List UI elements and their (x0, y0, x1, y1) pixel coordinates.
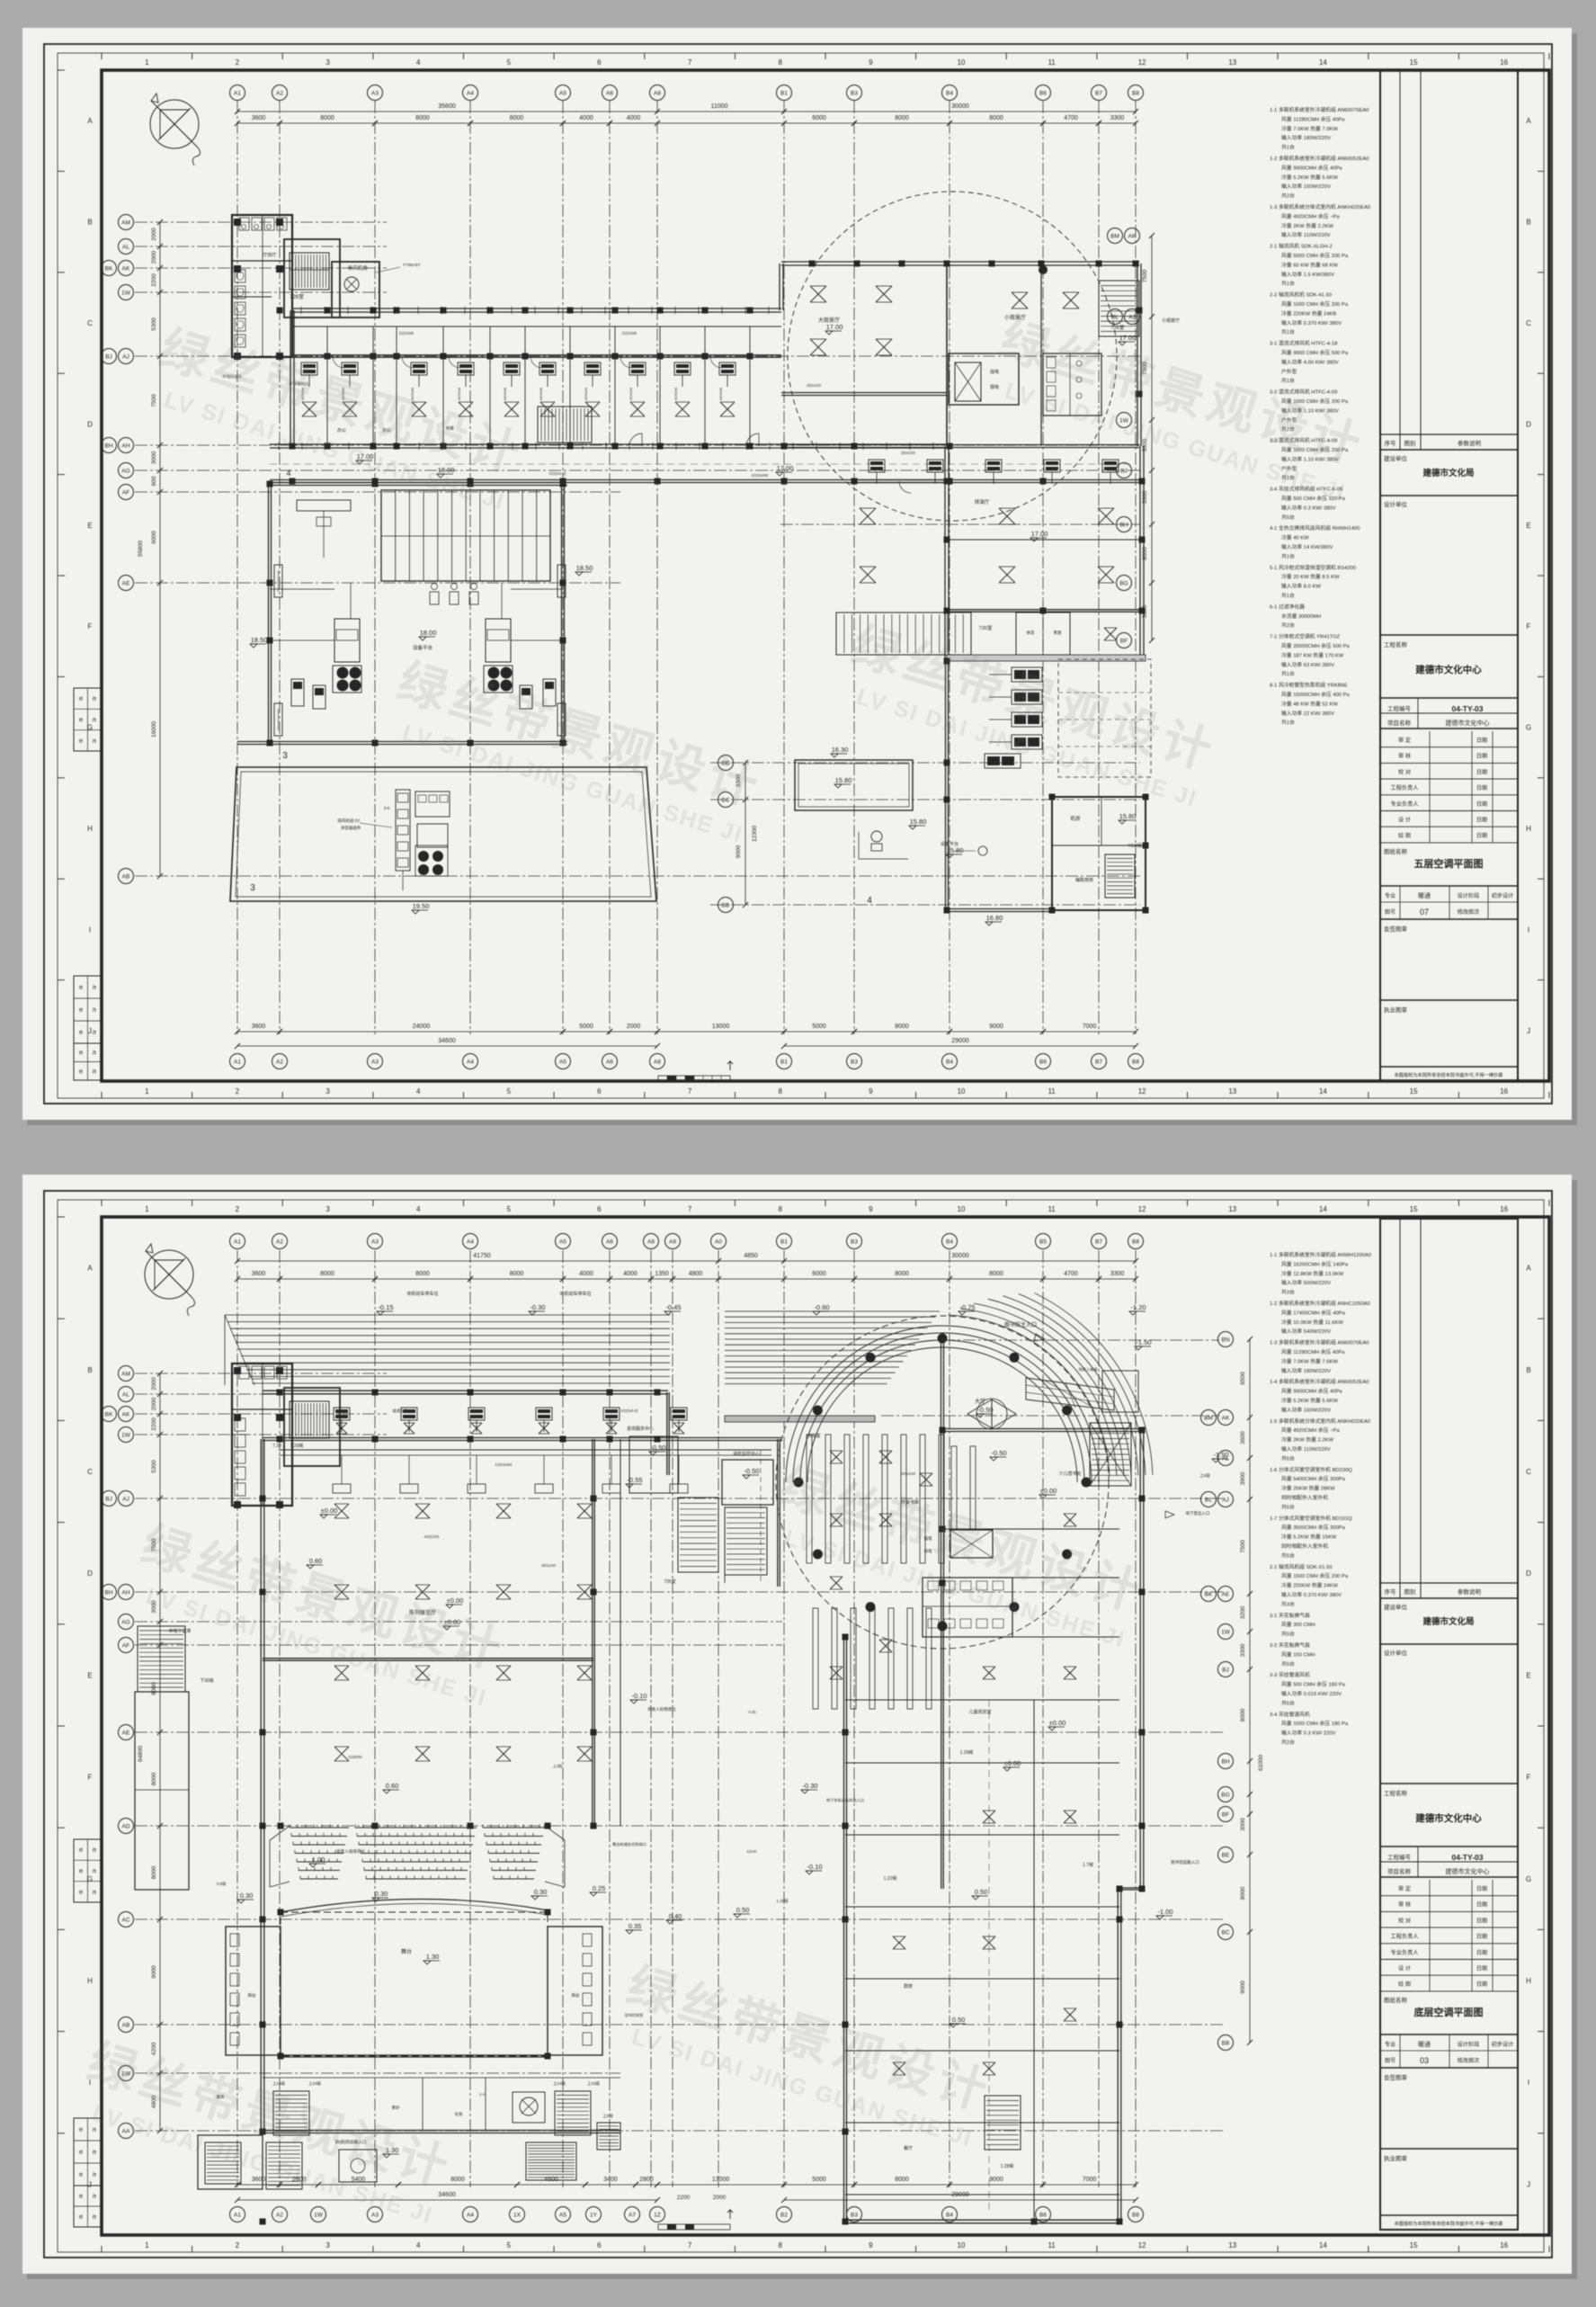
svg-text:日期: 日期 (1476, 1933, 1487, 1940)
svg-text:1.28候: 1.28候 (776, 1898, 789, 1904)
svg-text:风量 15000CMH 余压 400 Pa: 风量 15000CMH 余压 400 Pa (1281, 691, 1350, 698)
svg-text:输入功率 14 KW/380V: 输入功率 14 KW/380V (1281, 543, 1333, 550)
svg-text:726堂: 726堂 (1111, 324, 1125, 331)
svg-text:B: B (87, 1366, 92, 1374)
svg-text:日期: 日期 (1476, 753, 1487, 760)
svg-text:4850: 4850 (744, 1253, 758, 1259)
svg-text:E2D2M6: E2D2M6 (622, 331, 638, 335)
svg-text:输入功率 0.3 KW/ 380V: 输入功率 0.3 KW/ 380V (1281, 504, 1336, 511)
annex bottom wall (947, 908, 1052, 910)
svg-text:工程负责人: 工程负责人 (1391, 784, 1419, 791)
svg-text:1.7候: 1.7候 (1083, 1862, 1093, 1868)
svg-text:2: 2 (236, 2241, 240, 2249)
svg-text:13: 13 (1228, 2241, 1236, 2249)
svg-text:7: 7 (688, 1205, 692, 1213)
svg-text:3-2 混流式排风机 HTFC-4-09: 3-2 混流式排风机 HTFC-4-09 (1270, 389, 1337, 396)
svg-text:18.00: 18.00 (420, 629, 437, 637)
svg-text:修: 修 (79, 717, 84, 723)
svg-text:F: F (88, 622, 93, 630)
corridor door arcs (629, 434, 642, 446)
svg-text:9000: 9000 (151, 1965, 157, 1979)
thick drawing frame (102, 70, 1549, 1081)
svg-text:输入功率 0.015 KW/ 220V: 输入功率 0.015 KW/ 220V (1281, 1690, 1342, 1697)
svg-text:A2: A2 (276, 1238, 283, 1245)
svg-text:A9: A9 (669, 1238, 676, 1245)
svg-text:0.60: 0.60 (309, 1557, 323, 1565)
upper-right wall columns (809, 261, 816, 267)
svg-text:KD50/M: KD50/M (504, 388, 507, 400)
roof tier arcs northeast (949, 1315, 1110, 1476)
svg-text:改: 改 (93, 2127, 97, 2133)
svg-text:2: 2 (236, 1087, 240, 1095)
svg-text:8000: 8000 (320, 1271, 334, 1277)
right dimension line sheet2 (1249, 1339, 1251, 2043)
bottom detail dimension line sheet1 (237, 1031, 657, 1033)
grid row BN partial (942, 1339, 1219, 1341)
svg-text:冷量 5.2KW 热量 5.6KW: 冷量 5.2KW 热量 5.6KW (1281, 174, 1338, 181)
east wing bottom stair block (947, 609, 1142, 611)
annex machine room block (1052, 797, 1146, 910)
svg-text:BK: BK (1205, 1591, 1213, 1597)
svg-text:-1.50: -1.50 (1213, 1451, 1228, 1459)
svg-text:E: E (87, 522, 92, 530)
svg-text:9000: 9000 (989, 1024, 1003, 1030)
svg-text:2-1 轴流风机 SDK-XLGH-2: 2-1 轴流风机 SDK-XLGH-2 (1270, 243, 1333, 250)
svg-text:冷量 60 KW 热量 68 KW: 冷量 60 KW 热量 68 KW (1281, 261, 1338, 268)
svg-text:风量 16200CMH 余压 140Pa: 风量 16200CMH 余压 140Pa (1281, 1260, 1349, 1267)
svg-text:KD(5x0.8): KD(5x0.8) (549, 471, 566, 476)
svg-text:8000: 8000 (151, 1682, 157, 1695)
svg-text:日期: 日期 (1476, 784, 1487, 791)
svg-text:726堂: 726堂 (290, 293, 304, 300)
annex row bubbles sheet1 (718, 756, 734, 771)
bottom detail dimension line sheet2 (237, 2184, 657, 2186)
svg-text:3: 3 (325, 1087, 330, 1095)
svg-text:2800: 2800 (639, 2177, 654, 2183)
svg-text:1-6 分体式风管空调室外机 BD230Q: 1-6 分体式风管空调室外机 BD230Q (1270, 1466, 1352, 1473)
svg-text:AK: AK (1128, 233, 1137, 239)
right wing outline sheet2 (942, 1428, 1142, 1430)
platform AHU cluster west (334, 619, 360, 662)
svg-text:冷量 7.0KW 热量 7.6KW: 冷量 7.0KW 热量 7.6KW (1281, 1357, 1338, 1364)
svg-text:BJ: BJ (1120, 468, 1128, 474)
signature table (1380, 747, 1518, 748)
svg-text:C: C (87, 1468, 93, 1476)
svg-text:强电: 强电 (990, 369, 999, 375)
svg-text:KD50/M: KD50/M (629, 388, 633, 400)
svg-text:五层空调平面图: 五层空调平面图 (1414, 857, 1484, 870)
backstage rooms (422, 2078, 424, 2132)
stage trapezoid block (230, 767, 656, 901)
west wing diffusers (302, 402, 317, 416)
svg-text:图书馆主入口: 图书馆主入口 (1004, 1321, 1037, 1328)
svg-text:A3: A3 (371, 1059, 379, 1065)
backstage hatch block east (526, 2142, 576, 2180)
right dimension line sheet1 (1151, 236, 1153, 640)
svg-text:建德市文化中心: 建德市文化中心 (1414, 1812, 1482, 1824)
svg-text:29000: 29000 (951, 2192, 969, 2198)
svg-text:冷量 25KW 热量 28KW: 冷量 25KW 热量 28KW (1281, 1485, 1335, 1492)
svg-text:建设单位: 建设单位 (1384, 1603, 1408, 1611)
svg-text:12: 12 (1138, 58, 1146, 67)
svg-text:3600: 3600 (252, 1271, 266, 1277)
svg-text:8000: 8000 (895, 1271, 909, 1277)
svg-text:工程名称: 工程名称 (1384, 640, 1408, 648)
svg-text:地下室出入口: 地下室出入口 (1186, 1510, 1210, 1516)
library diffusers (830, 1451, 843, 1463)
bottom scale bar sheet1 (658, 1076, 730, 1081)
right wing partitions sheet2 (942, 1528, 1119, 1530)
svg-text:16: 16 (1500, 1205, 1508, 1213)
svg-text:绘 图: 绘 图 (1398, 832, 1411, 839)
svg-text:1-4: 1-4 (479, 2092, 486, 2097)
svg-text:7500: 7500 (151, 394, 157, 407)
stair up5 southeast (597, 2123, 620, 2150)
svg-text:B1: B1 (780, 1059, 788, 1065)
svg-text:2000: 2000 (151, 250, 157, 264)
right row grid bubbles sheet2 (1218, 1332, 1234, 1347)
svg-text:修: 修 (79, 1069, 84, 1075)
title block sheet2 (1380, 1219, 1518, 2230)
svg-text:AC: AC (121, 1917, 129, 1923)
svg-text:2: 2 (236, 1205, 240, 1213)
svg-text:400x240: 400x240 (541, 1563, 557, 1568)
svg-text:1X: 1X (513, 2212, 522, 2218)
annex equipment west rect (795, 760, 913, 810)
platform valves (430, 592, 439, 604)
svg-text:16.30: 16.30 (832, 746, 849, 754)
svg-text:-0.50: -0.50 (977, 1406, 993, 1414)
svg-text:冷量 5.2KW 热量 5.6KW: 冷量 5.2KW 热量 5.6KW (1281, 1397, 1338, 1404)
svg-text:3-6: 3-6 (384, 806, 390, 810)
svg-text:AM: AM (121, 1371, 130, 1377)
svg-text:专业负责人: 专业负责人 (1391, 1949, 1419, 1956)
svg-text:图别: 图别 (1404, 439, 1416, 447)
thick drawing frame (102, 1217, 1549, 2235)
svg-text:审 定: 审 定 (1398, 737, 1411, 744)
svg-text:地下非机动车库出入口: 地下非机动车库出入口 (826, 1797, 864, 1803)
room door arcs west wing (333, 356, 344, 368)
balcony arc sheet2 (281, 1899, 548, 1912)
svg-text:BF: BF (1222, 1811, 1229, 1818)
sheet2 hall mid wall (263, 1658, 593, 1659)
svg-text:8: 8 (778, 2241, 782, 2249)
right wing inner wall sheet2 (941, 1583, 942, 1889)
watermark stamps (72, 313, 1371, 2231)
svg-text:B8: B8 (1132, 1059, 1139, 1065)
svg-text:1-2 多联机系统室外冷凝机组 AN60052EA0: 1-2 多联机系统室外冷凝机组 AN60052EA0 (1270, 155, 1369, 162)
svg-text:底层空调平面图: 底层空调平面图 (1414, 2006, 1484, 2018)
svg-text:日期: 日期 (1476, 1965, 1487, 1972)
svg-text:3: 3 (250, 883, 255, 893)
columns toilet block sheet2 (234, 1367, 241, 1374)
sheet 1 (22, 28, 1577, 1125)
svg-text:BK: BK (105, 1411, 113, 1417)
svg-text:0.30: 0.30 (375, 1890, 388, 1898)
right wing diffusers labels (1064, 1514, 1076, 1526)
level 17.00 west wing (356, 461, 363, 464)
svg-text:初步设计: 初步设计 (1492, 892, 1514, 899)
stair block A2 (284, 239, 340, 317)
backstage band sheet2 (263, 2130, 620, 2132)
svg-text:AE: AE (122, 1730, 130, 1736)
svg-text:AB: AB (122, 2022, 130, 2028)
svg-text:改: 改 (93, 2194, 97, 2200)
svg-text:1.30: 1.30 (426, 1953, 440, 1961)
svg-text:修: 修 (79, 1050, 84, 1056)
svg-text:4: 4 (867, 896, 872, 906)
svg-text:风量 20000CMH 余压 500 Pa: 风量 20000CMH 余压 500 Pa (1281, 642, 1350, 649)
top grid number strip (101, 53, 103, 59)
svg-text:3400: 3400 (603, 2177, 618, 2183)
inner thin border (58, 1200, 1544, 2252)
title row: seq/cat/notes header (1380, 434, 1518, 435)
svg-text:审 核: 审 核 (1398, 753, 1411, 760)
svg-text:4-1 全热交换排风送风机组 RHWH1400: 4-1 全热交换排风送风机组 RHWH1400 (1270, 524, 1360, 532)
svg-text:34600: 34600 (438, 1038, 456, 1044)
svg-text:AG: AG (121, 1619, 129, 1625)
west hall top wall sheet2 (263, 1390, 668, 1391)
svg-text:15: 15 (1410, 1087, 1418, 1095)
svg-text:B2: B2 (780, 2212, 788, 2218)
svg-text:AF: AF (122, 489, 129, 496)
svg-text:图别: 图别 (1404, 1587, 1416, 1596)
svg-text:上24级: 上24级 (272, 2080, 286, 2087)
svg-text:输入功率 110W/220V: 输入功率 110W/220V (1281, 231, 1331, 238)
right wing stair south (985, 2096, 1021, 2150)
west wing bottom wall (270, 443, 947, 445)
svg-text:设计单位: 设计单位 (1384, 500, 1408, 508)
svg-text:A6: A6 (606, 1238, 613, 1245)
svg-text:11: 11 (1048, 58, 1056, 67)
svg-text:8000: 8000 (151, 1865, 157, 1879)
project number row (1417, 1846, 1419, 1877)
west wing top wall (292, 308, 781, 309)
svg-text:-0.60: -0.60 (814, 1303, 829, 1311)
svg-text:冷量 40 KW: 冷量 40 KW (1281, 534, 1309, 541)
svg-text:风量 11280CMH 余压 40Pa: 风量 11280CMH 余压 40Pa (1281, 1348, 1345, 1355)
svg-text:冷量 12.8KW 热量 13.0KW: 冷量 12.8KW 热量 13.0KW (1281, 1270, 1344, 1277)
svg-text:-0.50: -0.50 (650, 1444, 665, 1452)
svg-text:本图版权为本院所有非经本院书面许可,不得一律抄袭: 本图版权为本院所有非经本院书面许可,不得一律抄袭 (1395, 1071, 1504, 1078)
elevator core (949, 353, 1019, 405)
svg-text:改: 改 (93, 2172, 97, 2178)
svg-text:A2: A2 (276, 1059, 283, 1065)
svg-text:A4: A4 (467, 90, 474, 96)
left dimension line sheet1 (159, 222, 161, 876)
svg-text:1.22候: 1.22候 (884, 1875, 897, 1882)
svg-text:图号: 图号 (1385, 2058, 1395, 2064)
svg-text:400(240): 400(240) (424, 1534, 440, 1539)
svg-text:C: C (87, 319, 93, 327)
svg-text:B: B (87, 219, 92, 227)
svg-text:3300: 3300 (1142, 490, 1148, 504)
svg-text:上20级: 上20级 (308, 2080, 322, 2087)
svg-text:改: 改 (93, 717, 97, 723)
svg-text:6: 6 (597, 1087, 602, 1095)
svg-text:H: H (87, 825, 93, 833)
platform AHU cluster east (486, 619, 511, 662)
svg-text:餐厅: 餐厅 (904, 2145, 913, 2151)
svg-text:B5: B5 (1039, 1238, 1047, 1245)
svg-text:15: 15 (1410, 58, 1418, 67)
sheet paper (27, 1180, 1577, 2279)
svg-text:B3: B3 (851, 1059, 858, 1065)
svg-text:Y24候: Y24候 (1128, 842, 1142, 849)
svg-text:AM: AM (121, 219, 130, 226)
svg-text:B8: B8 (1132, 2212, 1139, 2218)
svg-text:A: A (87, 117, 93, 125)
west chord wall sheet2 (777, 1439, 779, 1587)
svg-text:C: C (1526, 319, 1531, 327)
svg-text:审 核: 审 核 (1398, 1901, 1411, 1909)
svg-text:改: 改 (93, 1030, 97, 1036)
svg-text:7500: 7500 (1142, 269, 1148, 282)
svg-text:7: 7 (688, 2241, 692, 2249)
west hall band wall (263, 1437, 782, 1439)
svg-text:化妆: 化妆 (455, 2111, 463, 2117)
svg-text:A8: A8 (647, 1238, 655, 1245)
svg-text:AK: AK (122, 1411, 130, 1417)
svg-text:15.80: 15.80 (947, 846, 964, 854)
bottom column grid bubbles sheet2 (230, 2207, 245, 2222)
svg-text:共1台: 共1台 (1281, 719, 1295, 726)
west wing interior line (292, 326, 781, 327)
library circle sheet2 (776, 1316, 1109, 1649)
svg-text:修: 修 (79, 2150, 84, 2156)
hatched wall under east strip (725, 1416, 875, 1422)
svg-text:A7: A7 (629, 2212, 636, 2218)
svg-text:改: 改 (93, 1007, 97, 1014)
svg-text:半地下室率: 半地下室率 (168, 1628, 191, 1634)
svg-text:冷量 2KW 热量 2.2KW: 冷量 2KW 热量 2.2KW (1281, 1436, 1334, 1444)
svg-text:专业: 专业 (1385, 892, 1395, 899)
svg-text:输入功率 180W/220V: 输入功率 180W/220V (1281, 1367, 1331, 1374)
svg-text:3.6候: 3.6候 (217, 1881, 227, 1887)
svg-text:厨房: 厨房 (904, 1983, 913, 1990)
bookshelf stacks upper (807, 1435, 812, 1563)
roof tier strips east (725, 1310, 940, 1312)
svg-text:F: F (88, 1774, 93, 1782)
svg-text:BJ: BJ (1222, 1667, 1229, 1673)
svg-text:8000: 8000 (895, 2177, 909, 2183)
svg-text:1350: 1350 (655, 1271, 669, 1277)
svg-text:2200: 2200 (677, 2195, 691, 2201)
stage equipment train (396, 790, 410, 871)
sheet 2 (22, 1175, 1577, 2279)
top overall dimension line sheet1 (237, 111, 1136, 112)
upper-right diffusers (810, 286, 826, 302)
svg-text:3: 3 (325, 1205, 330, 1213)
svg-text:17.00: 17.00 (826, 323, 843, 331)
svg-text:建德市文化局: 建德市文化局 (1422, 1616, 1474, 1627)
svg-text:侧台: 侧台 (248, 1992, 256, 1999)
svg-text:KD50/M: KD50/M (348, 1755, 362, 1759)
bottom overall dimension line sheet1 (237, 1045, 657, 1047)
svg-text:输入功率 63 KW/ 380V: 输入功率 63 KW/ 380V (1281, 661, 1334, 668)
west wing room partitions (326, 326, 328, 444)
svg-text:9: 9 (869, 2241, 873, 2249)
svg-text:0.50: 0.50 (975, 1888, 988, 1896)
svg-text:I: I (1528, 2079, 1529, 2087)
svg-text:1W: 1W (1221, 1629, 1231, 1635)
svg-text:1-2 多联机系统室外冷凝机组 ANHC1050A0: 1-2 多联机系统室外冷凝机组 ANHC1050A0 (1270, 1300, 1370, 1307)
svg-text:11000: 11000 (711, 103, 728, 110)
svg-text:8: 8 (778, 58, 782, 67)
svg-text:A1: A1 (234, 1238, 241, 1245)
svg-text:400x240: 400x240 (901, 1471, 916, 1476)
platform louver boxes (274, 565, 282, 597)
svg-text:G: G (1526, 1875, 1531, 1883)
svg-text:4700: 4700 (1064, 115, 1078, 121)
svg-text:1-3 多联机系统分体式室内机 ANKH020EA0: 1-3 多联机系统分体式室内机 ANKH020EA0 (1270, 203, 1370, 210)
svg-text:BN: BN (1221, 1337, 1229, 1343)
svg-text:B3: B3 (851, 2212, 858, 2218)
svg-text:6: 6 (597, 1205, 602, 1213)
svg-text:14: 14 (1319, 1205, 1327, 1213)
svg-text:FY86A5Y: FY86A5Y (403, 263, 420, 267)
title block sheet1 (1380, 70, 1518, 1081)
svg-text:B6: B6 (1039, 90, 1047, 96)
svg-text:12: 12 (1138, 2241, 1146, 2249)
svg-text:-0.10: -0.10 (807, 1863, 822, 1871)
svg-text:3000: 3000 (1240, 1818, 1246, 1831)
svg-text:舞台: 舞台 (401, 1948, 412, 1955)
svg-text:AF: AF (122, 1642, 129, 1649)
svg-text:AE: AE (1222, 1591, 1230, 1597)
svg-text:风量 150 CMH: 风量 150 CMH (1281, 1651, 1315, 1658)
svg-text:图纸名称: 图纸名称 (1384, 847, 1408, 855)
svg-text:上6级: 上6级 (1199, 1472, 1210, 1479)
svg-text:7000: 7000 (1083, 1024, 1097, 1030)
svg-text:风量 11280CMH 余压 40Pa: 风量 11280CMH 余压 40Pa (1281, 115, 1345, 122)
svg-text:修: 修 (79, 1847, 84, 1854)
svg-text:序号: 序号 (1385, 439, 1397, 447)
svg-text:会签图章: 会签图章 (1384, 2073, 1408, 2081)
west side stair annex sheet2 (138, 1626, 185, 1692)
svg-text:参数说明: 参数说明 (1458, 439, 1482, 447)
svg-text:AH: AH (121, 1589, 129, 1596)
svg-text:共1台: 共1台 (1281, 670, 1295, 677)
bottom column grid bubbles sheet1 (230, 1054, 245, 1069)
svg-text:A3: A3 (371, 1238, 379, 1245)
svg-text:J: J (1527, 2180, 1530, 2188)
svg-text:1: 1 (145, 2241, 149, 2249)
project number row (1417, 698, 1419, 729)
top detail dimension line sheet2 (237, 1278, 1136, 1280)
svg-text:A6: A6 (606, 1059, 613, 1065)
svg-text:12: 12 (1138, 1205, 1146, 1213)
svg-text:BJ: BJ (105, 1496, 112, 1502)
svg-text:BM: BM (1110, 233, 1119, 239)
west hall labels (320, 1515, 327, 1518)
svg-text:A1: A1 (234, 1059, 241, 1065)
revision strip sheet1 upper (74, 688, 102, 751)
svg-text:15.80: 15.80 (835, 776, 852, 784)
svg-text:KD63x8M: KD63x8M (752, 473, 769, 478)
svg-text:3600: 3600 (252, 115, 266, 121)
svg-text:修: 修 (79, 1007, 84, 1014)
svg-text:64800: 64800 (138, 1746, 144, 1762)
stage side rooms east (548, 1927, 602, 2055)
svg-text:1.28候: 1.28候 (290, 1443, 304, 1449)
svg-text:6000: 6000 (812, 1271, 826, 1277)
bookshelf stacks lower (813, 1608, 818, 1709)
svg-text:8000: 8000 (450, 2177, 465, 2183)
backstage elevator circle (520, 2097, 538, 2115)
svg-text:F: F (1527, 622, 1531, 630)
svg-text:日期: 日期 (1476, 817, 1487, 824)
